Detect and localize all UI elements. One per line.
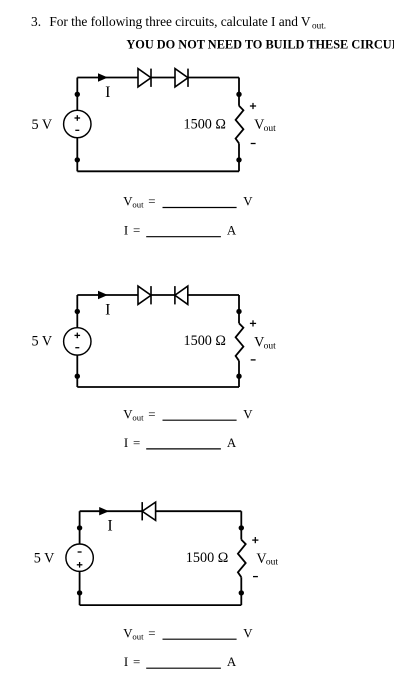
answer line I (circuit 1): [124, 224, 237, 238]
svg-text:out: out: [266, 558, 279, 568]
label minus (circuit 1 Vout): [251, 143, 256, 145]
svg-text:out: out: [132, 412, 144, 422]
V1 plus sign: [75, 115, 81, 121]
svg-text:=: =: [148, 195, 155, 209]
resistor R2 1500 ohm zigzag: [236, 323, 244, 361]
wire: circuit 3 left vertical: [79, 511, 81, 544]
V3 minus sign (top): [78, 551, 82, 553]
label: problem statement line 1: [31, 14, 326, 30]
wire: circuit 1 top horizontal: [77, 77, 239, 79]
wire: circuit 1 left vertical lower: [76, 138, 78, 172]
wire: circuit 1 bottom horizontal: [77, 170, 239, 172]
node dot circuit 3 top-left: [77, 525, 82, 530]
diode D4 (circuit 2, points left): [175, 286, 188, 304]
label minus (circuit 3 Vout): [253, 576, 258, 578]
svg-text:5 V: 5 V: [32, 117, 53, 133]
node dot circuit 2 bottom-right: [236, 374, 241, 379]
answer line I (circuit 2): [124, 436, 237, 450]
svg-text:I: I: [107, 518, 112, 535]
voltage source V3 circle (5 V, reversed): [66, 544, 93, 571]
wire: circuit 3 right vertical lower: [240, 577, 242, 605]
node dot circuit 3 bottom-right: [239, 590, 244, 595]
svg-text:V: V: [243, 626, 253, 640]
svg-text:out: out: [264, 124, 277, 134]
label minus (circuit 2 Vout): [251, 359, 256, 361]
svg-text:I: I: [124, 224, 128, 238]
svg-text:I: I: [124, 436, 128, 450]
voltage source V2 circle (5 V): [64, 328, 91, 355]
svg-text:3.: 3.: [31, 14, 41, 29]
wire: circuit 2 right vertical lower: [238, 361, 240, 387]
wire: circuit 2 right vertical upper: [238, 295, 240, 323]
wire: circuit 3 bottom horizontal: [80, 604, 242, 606]
svg-text:A: A: [227, 436, 237, 450]
svg-text:V: V: [243, 195, 253, 209]
V2 minus sign: [75, 347, 79, 349]
diode D3 (circuit 2, points right): [138, 286, 151, 304]
svg-text:=: =: [133, 436, 140, 450]
svg-text:A: A: [227, 655, 237, 669]
svg-text:=: =: [133, 224, 140, 238]
svg-text:For the following three circui: For the following three circuits, calcul…: [49, 14, 311, 29]
current arrow I (circuit 2): [98, 291, 108, 299]
wire: circuit 2 left vertical lower: [76, 355, 78, 387]
svg-text:out: out: [132, 631, 144, 641]
label Vout (circuit 3): [256, 551, 278, 568]
svg-text:5 V: 5 V: [34, 551, 55, 567]
svg-text:YOU DO NOT NEED TO BUILD THESE: YOU DO NOT NEED TO BUILD THESE CIRCUITS.: [126, 38, 394, 52]
wire: circuit 2 left vertical: [76, 295, 78, 328]
V2 plus sign: [75, 333, 81, 339]
resistor R3 1500 ohm zigzag: [238, 540, 246, 578]
V3 plus sign (bottom): [77, 562, 83, 568]
current arrow I (circuit 1): [98, 73, 108, 81]
voltage source V1 circle (5 V): [64, 110, 91, 137]
resistor R1 1500 ohm zigzag: [236, 106, 244, 144]
svg-text:out: out: [264, 341, 277, 351]
answer line Vout (circuit 1): [123, 195, 253, 210]
wire: circuit 1 right vertical lower: [238, 143, 240, 171]
answer line Vout (circuit 2): [123, 407, 253, 422]
node dot circuit 1 bottom-left: [75, 157, 80, 162]
node dot circuit 1 top-left: [75, 92, 80, 97]
wire: circuit 3 right vertical upper: [240, 511, 242, 539]
svg-text:I: I: [105, 84, 110, 101]
diode D1 (circuit 1, points right): [138, 69, 151, 87]
svg-text:1500 Ω: 1500 Ω: [184, 333, 226, 349]
wire: circuit 3 left vertical lower: [79, 571, 81, 605]
label Vout (circuit 1): [254, 117, 276, 134]
answer line Vout (circuit 3): [123, 626, 253, 641]
label plus (circuit 2 Vout): [250, 320, 256, 326]
wire: circuit 2 bottom horizontal: [77, 386, 239, 388]
node dot circuit 2 top-right: [236, 309, 241, 314]
diode D2 (circuit 1, points right): [175, 69, 188, 87]
node dot circuit 2 bottom-left: [75, 374, 80, 379]
svg-text:1500 Ω: 1500 Ω: [184, 116, 226, 132]
label plus (circuit 1 Vout): [250, 103, 256, 109]
current arrow I (circuit 3): [99, 507, 109, 515]
wire: circuit 1 right vertical upper: [238, 78, 240, 106]
svg-text:V: V: [243, 407, 253, 421]
label plus (circuit 3 Vout): [252, 537, 258, 543]
svg-text:5 V: 5 V: [32, 333, 53, 349]
diode D5 (circuit 3, points left): [142, 502, 155, 520]
node dot circuit 1 top-right: [236, 92, 241, 97]
svg-text:=: =: [148, 626, 155, 640]
node dot circuit 3 bottom-left: [77, 590, 82, 595]
svg-text:=: =: [148, 407, 155, 421]
wire: circuit 1 left vertical: [76, 78, 78, 111]
wire: circuit 2 top horizontal: [77, 294, 239, 296]
svg-text:out: out: [132, 200, 144, 210]
svg-text:=: =: [133, 655, 140, 669]
svg-text:I: I: [124, 655, 128, 669]
node dot circuit 3 top-right: [239, 525, 244, 530]
node dot circuit 2 top-left: [75, 309, 80, 314]
svg-text:out.: out.: [312, 20, 326, 30]
wire: circuit 3 top horizontal: [80, 510, 242, 512]
V1 minus sign: [75, 129, 79, 131]
svg-text:I: I: [105, 301, 110, 318]
answer line I (circuit 3): [124, 655, 237, 669]
svg-text:A: A: [227, 224, 237, 238]
node dot circuit 1 bottom-right: [236, 157, 241, 162]
svg-text:1500 Ω: 1500 Ω: [186, 550, 228, 566]
label Vout (circuit 2): [254, 335, 276, 352]
